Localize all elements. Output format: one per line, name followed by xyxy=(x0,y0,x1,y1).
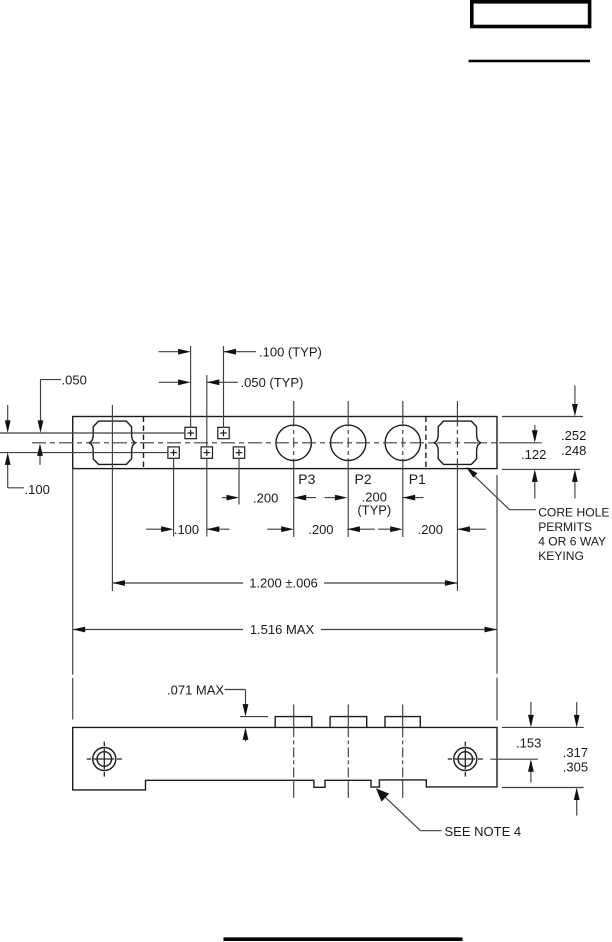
arrowheads .100 left xyxy=(5,420,11,433)
top view: hidden boundary line right of contact field (dashed) xyxy=(425,417,427,469)
core hole note leader xyxy=(510,509,537,511)
extension line, keying col x=206.8 below body xyxy=(206,458,208,536)
footer rule (bottom of page) xyxy=(224,937,463,941)
svg-text:.050: .050 xyxy=(62,373,87,388)
arrowheads 1.200 xyxy=(112,580,125,586)
extension line, body left edge down to side view xyxy=(72,469,74,675)
keying hole, top row 2 xyxy=(218,427,229,438)
centerline, contact P3 column xyxy=(293,401,295,417)
svg-text:PERMITS: PERMITS xyxy=(538,520,592,534)
crosshair right mounting hole xyxy=(448,758,452,760)
side view centerline P2 column xyxy=(347,704,349,727)
arrowheads top dims xyxy=(178,349,191,355)
contact hole P1 xyxy=(385,425,420,460)
top view: hidden boundary line left of keying field (dashed) xyxy=(143,417,145,469)
side view: polarizing tab 3 xyxy=(385,717,420,728)
extension line, keying col x=239 below body xyxy=(238,458,240,504)
dim 1.200 line xyxy=(112,582,243,584)
extension line, body right edge down xyxy=(496,475,498,674)
keying hole, bottom row 3 xyxy=(233,447,244,458)
extension line, top keying row xyxy=(0,432,185,434)
svg-text:.100: .100 xyxy=(174,522,199,537)
side view right extension lines xyxy=(502,726,584,728)
dim .100 (TYP) leader lines xyxy=(159,351,179,353)
side view centerline P3 column xyxy=(293,704,295,727)
side view: polarizing tab 2 xyxy=(330,717,367,728)
extension line, keying col x=206.8 (upper part) xyxy=(206,375,208,447)
top view: left core hole (4/6-way keying profile) xyxy=(89,421,136,464)
svg-text:.248: .248 xyxy=(561,443,586,458)
note: core hole permits 4 or 6 way keying xyxy=(538,506,609,564)
side view: right mounting hole xyxy=(454,748,477,771)
svg-text:.200: .200 xyxy=(253,490,278,505)
dim 1.516 line xyxy=(73,629,243,631)
extension line, keying col x=223.5 (top row) xyxy=(223,346,225,428)
extension line, bottom keying row xyxy=(0,452,168,454)
arrowheads .050 left xyxy=(38,420,44,433)
svg-text:1.200 ±.006: 1.200 ±.006 xyxy=(249,576,318,591)
svg-text:.317: .317 xyxy=(563,745,588,760)
contact hole P3 xyxy=(276,425,311,460)
side view centerline P1 column xyxy=(402,704,404,727)
dim .252/.248 arrow lines xyxy=(574,385,576,404)
extension line, keying col x=190.6 (top row) xyxy=(190,346,192,428)
svg-text:P1: P1 xyxy=(409,471,426,487)
svg-text:1.516 MAX: 1.516 MAX xyxy=(250,622,315,637)
header rule under box xyxy=(469,60,591,63)
extension line, keying col x=173.6 below body xyxy=(173,458,175,536)
dim .050 left leader xyxy=(41,379,62,381)
extension line, body bottom edge to the right xyxy=(502,468,580,470)
svg-text:KEYING: KEYING xyxy=(538,549,584,563)
title block box (top right) xyxy=(472,2,590,27)
dim .153 arrow lines xyxy=(530,702,532,715)
arrowhead see note 4 xyxy=(376,788,389,801)
svg-text:4 OR 6 WAY: 4 OR 6 WAY xyxy=(538,535,606,549)
arrowheads .071 MAX xyxy=(243,704,249,717)
see note 4 leader xyxy=(421,830,442,832)
side view: left mounting hole xyxy=(93,748,116,771)
centerline, contact P2 column xyxy=(347,401,349,417)
svg-text:.153: .153 xyxy=(516,736,541,751)
centerline, left core hole column xyxy=(111,405,113,591)
dim row1 .200 lines xyxy=(222,497,228,499)
keying hole, bottom row 1 xyxy=(168,447,179,458)
dim .122 arrow lines xyxy=(534,425,536,431)
svg-text:(TYP): (TYP) xyxy=(357,503,391,518)
svg-text:.252: .252 xyxy=(561,428,586,443)
svg-text:P3: P3 xyxy=(298,471,315,487)
svg-text:.100: .100 xyxy=(25,482,50,497)
arrowheads 1.516 xyxy=(73,627,86,633)
arrowheads .153 xyxy=(528,715,534,728)
contact hole P2 xyxy=(331,425,366,460)
centerline, right core hole column xyxy=(456,401,458,417)
svg-text:.122: .122 xyxy=(521,447,546,462)
svg-text:P2: P2 xyxy=(355,471,372,487)
svg-text:CORE HOLE: CORE HOLE xyxy=(538,506,609,520)
arrowheads row2 xyxy=(161,526,174,532)
side view: polarizing tab 1 xyxy=(275,717,312,728)
top view: connector body outline xyxy=(73,417,497,469)
horizontal centerline of part xyxy=(32,442,497,444)
keying hole, bottom row 2 xyxy=(201,447,212,458)
arrowhead core hole leader xyxy=(466,467,478,478)
arrowheads row1 xyxy=(227,495,240,501)
arrowheads right-side dims xyxy=(572,404,578,417)
arrowheads .317/.305 xyxy=(574,715,580,728)
dim .071 MAX leader xyxy=(225,689,246,691)
dim .317/.305 arrow lines xyxy=(576,702,578,715)
svg-text:.200: .200 xyxy=(308,522,333,537)
svg-text:.100 (TYP): .100 (TYP) xyxy=(259,344,322,359)
top view: right core hole (4/6-way keying profile) xyxy=(434,421,481,464)
dim .100 left leader xyxy=(7,405,9,422)
svg-text:.071 MAX: .071 MAX xyxy=(167,682,224,697)
svg-text:SEE NOTE 4: SEE NOTE 4 xyxy=(445,824,522,839)
dim row2 lines xyxy=(146,528,162,530)
dim .050 (TYP) leader lines xyxy=(159,381,179,383)
crosshair left mounting hole xyxy=(87,758,91,760)
svg-text:.305: .305 xyxy=(563,759,588,774)
extension line, body top edge to the right xyxy=(502,416,583,418)
svg-text:.200: .200 xyxy=(418,522,443,537)
keying hole, top row 1 xyxy=(185,427,196,438)
centerline, contact P1 column xyxy=(402,401,404,417)
side view: body profile outline xyxy=(73,727,497,790)
svg-text:.050 (TYP): .050 (TYP) xyxy=(241,375,304,390)
